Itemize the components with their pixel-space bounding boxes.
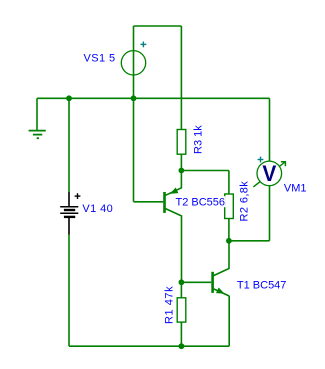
wire T1 emitter drop (228, 296, 230, 346)
svg-text:R2 6,8k: R2 6,8k (239, 181, 251, 222)
battery plus sign (75, 193, 81, 199)
svg-text:R3 1k: R3 1k (193, 125, 205, 154)
node R1 top junction (179, 279, 185, 285)
transistor T2 base bar (163, 192, 166, 213)
wire junction to R2 horizontal (181, 170, 229, 172)
label T2 BC556 (175, 196, 226, 208)
wire R2 top lead (228, 171, 230, 195)
svg-text:VS1 5: VS1 5 (84, 53, 116, 65)
wire R2 bottom lead (228, 219, 230, 241)
svg-text:VM1: VM1 (284, 183, 307, 195)
transistor T1 base bar (211, 272, 214, 293)
voltmeter VM1 needle arrowhead (281, 162, 286, 167)
voltmeter VM1 needle (253, 162, 285, 187)
transistor T1 collector (214, 241, 229, 276)
node battery top junction (66, 95, 72, 101)
node R2 bottom junction (226, 238, 232, 244)
svg-text:T1 BC547: T1 BC547 (237, 279, 287, 291)
wire T2 base lead (134, 201, 164, 203)
node VS1 bottom junction (131, 95, 137, 101)
node R1 bottom junction (179, 343, 185, 349)
resistor R2 (225, 194, 234, 219)
transistor T2 emitter (166, 171, 182, 196)
wire junction to VM1 bottom (229, 240, 270, 242)
wire top rail from VS1 top to R3 branch (134, 25, 182, 27)
VM1 plus sign (258, 157, 264, 163)
wire bottom rail (69, 345, 229, 347)
wire battery branch upper (68, 98, 70, 192)
transistor T1 emitter arrow (217, 288, 224, 293)
resistor R1 (177, 298, 186, 322)
wire R3 branch vertical from top rail crossing main rail (180, 26, 182, 130)
transistor T2 emitter arrow (171, 188, 178, 193)
svg-text:T2 BC556: T2 BC556 (176, 196, 226, 208)
node R3 bottom junction (179, 168, 185, 174)
wire ground stem (36, 98, 38, 130)
transistor T1 emitter (214, 289, 230, 296)
voltmeter VM1 circle (257, 161, 282, 186)
svg-text:V1 40: V1 40 (82, 203, 113, 215)
battery V1 (60, 192, 78, 235)
wire R1 bottom lead (180, 322, 182, 346)
wire VM1 upper lead (269, 98, 271, 161)
VS1 plus sign (141, 42, 147, 48)
wire battery branch lower (68, 235, 70, 347)
svg-text:R1 47k: R1 47k (163, 286, 175, 324)
svg-text:V: V (262, 161, 277, 186)
wire T2 collector to R1 junction (180, 282, 182, 298)
resistor R3 (177, 130, 186, 155)
ground (29, 131, 46, 139)
transistor T2 collector (166, 209, 182, 283)
wire vertical VS1 branch through source down to T2 base corner (133, 26, 135, 202)
voltage source VS1 circle (121, 51, 145, 75)
wire VM1 lower lead (269, 186, 271, 241)
wire T1 base lead (181, 281, 211, 283)
wire R3 bottom lead (180, 154, 182, 170)
wire main horizontal rail (37, 97, 270, 99)
